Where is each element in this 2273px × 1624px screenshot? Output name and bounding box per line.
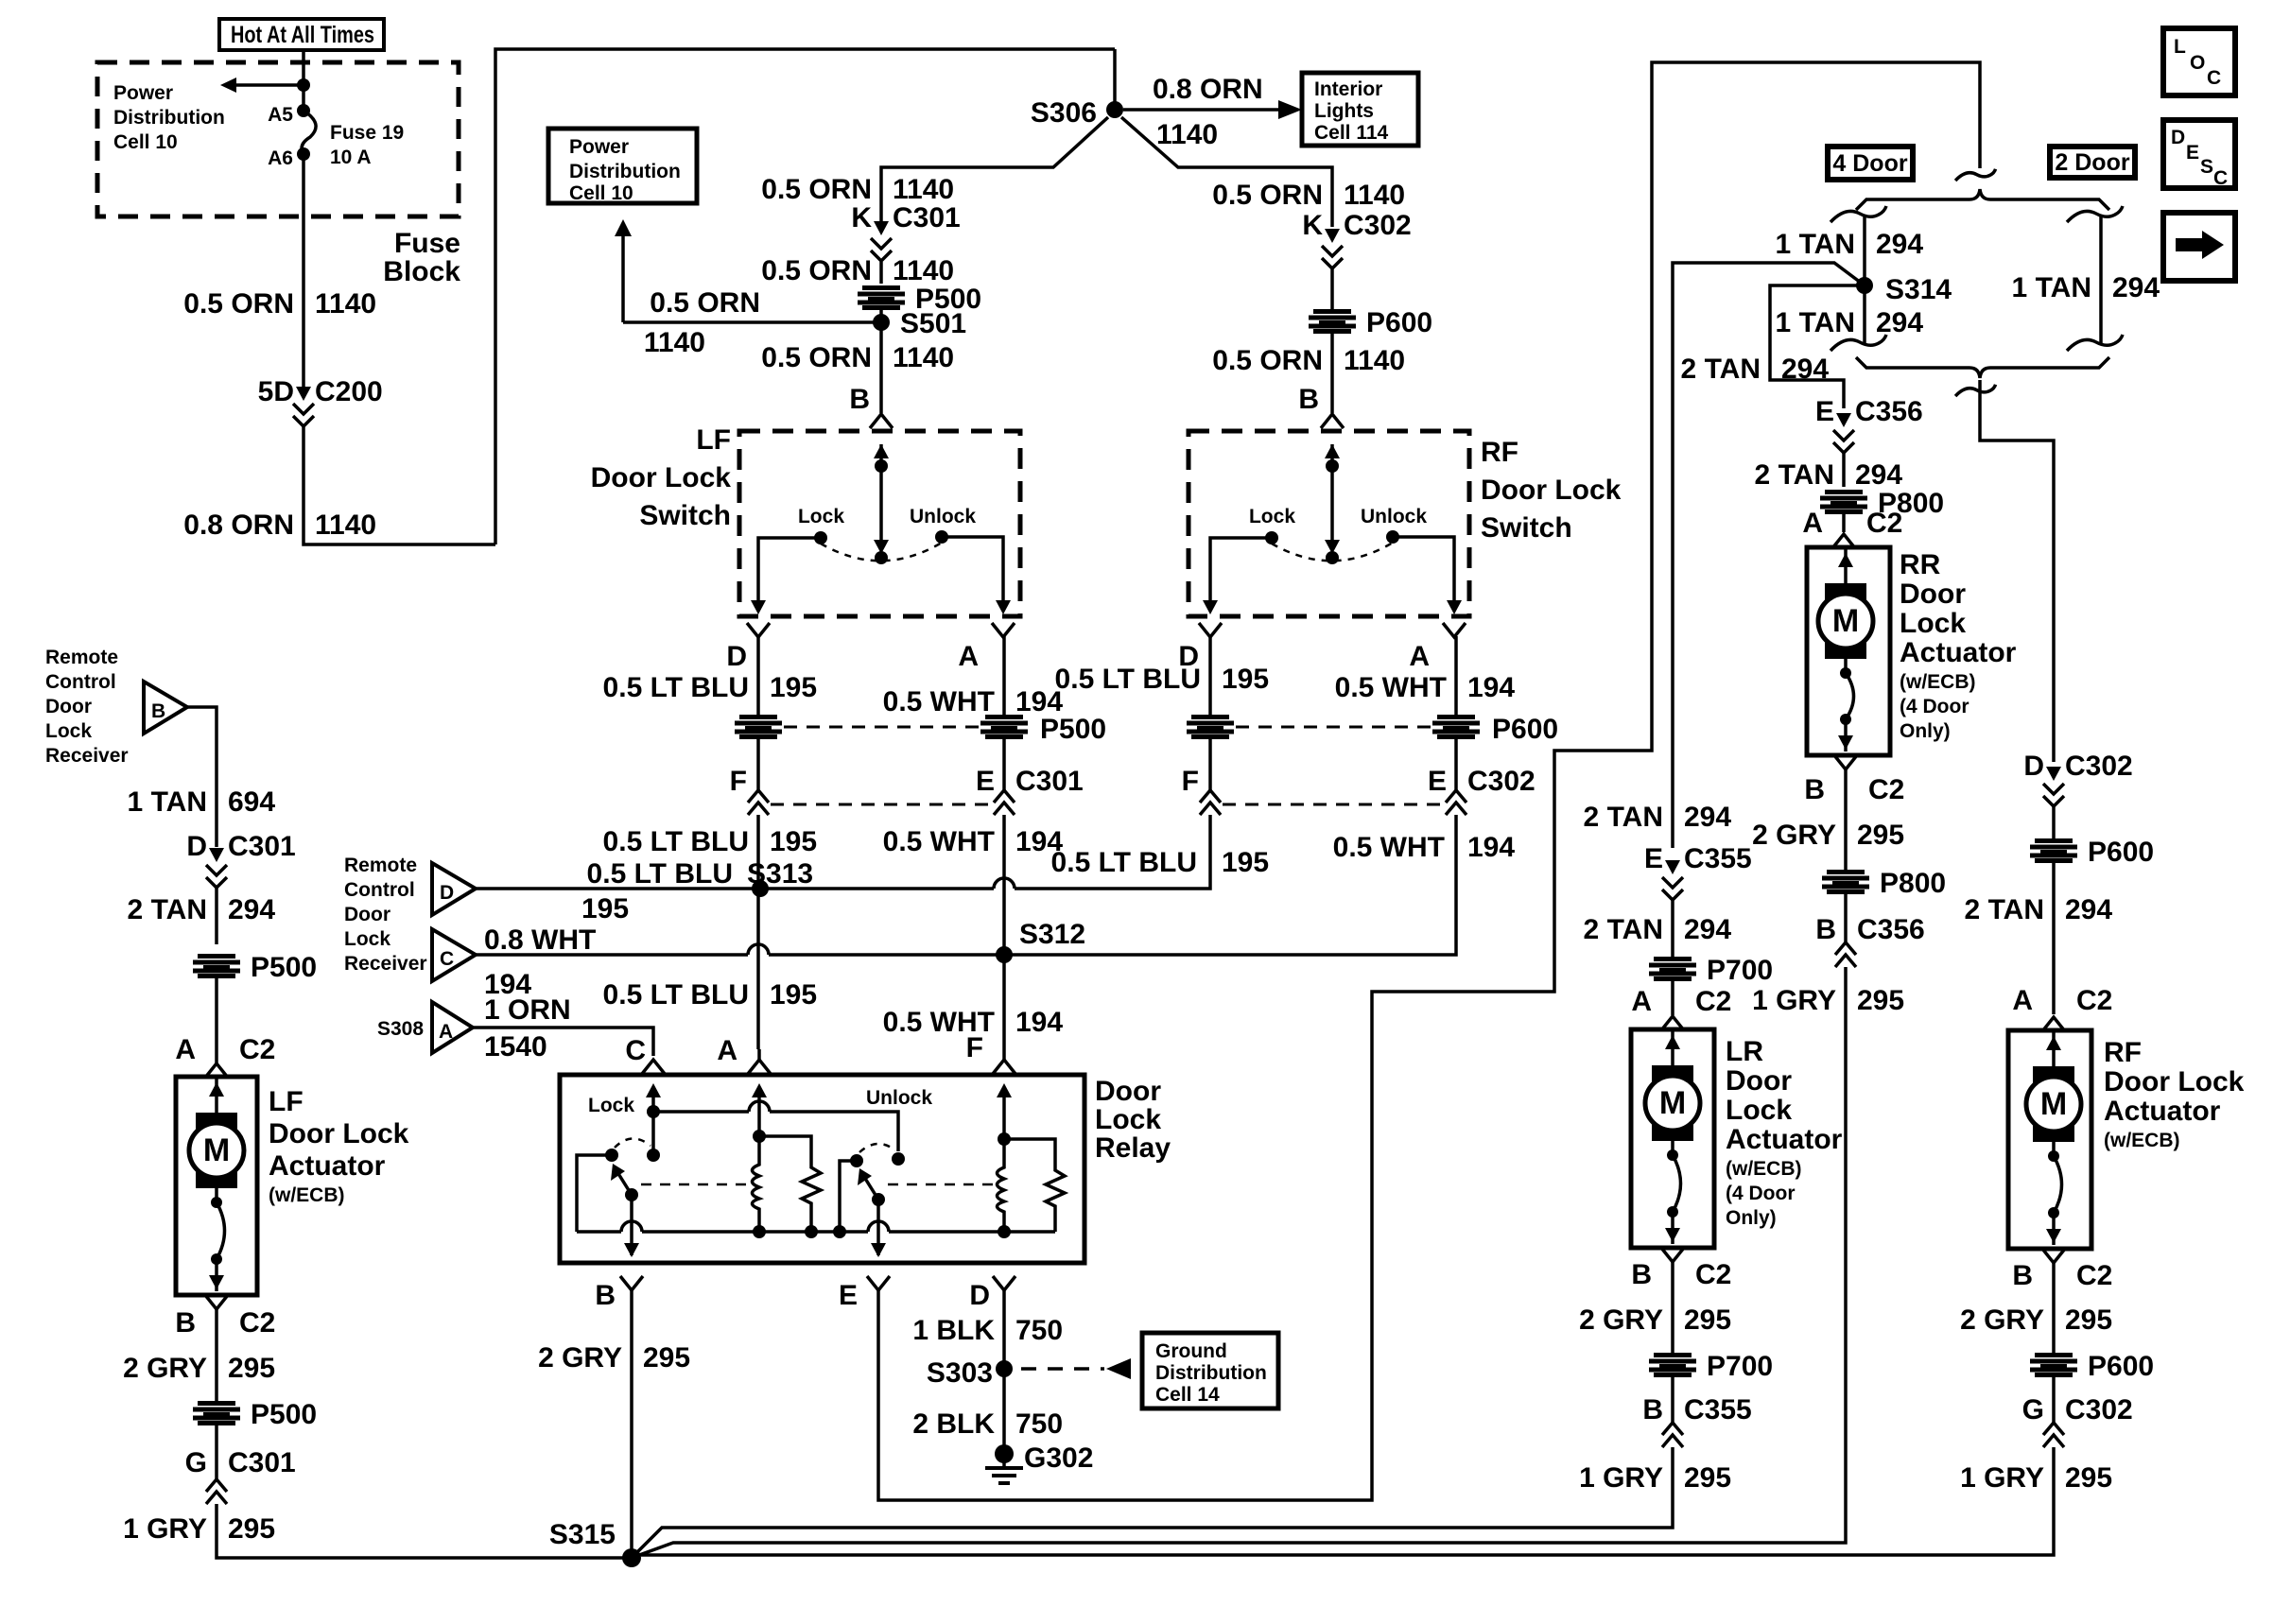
svg-text:Interior: Interior — [1314, 78, 1382, 100]
connector P600 (RF A line) — [1432, 715, 1480, 739]
door lock relay box — [560, 1075, 1084, 1263]
splice S313 — [752, 880, 769, 897]
svg-text:F: F — [730, 766, 747, 797]
svg-text:0.5 ORN: 0.5 ORN — [761, 174, 872, 205]
svg-text:B: B — [595, 1280, 616, 1311]
svg-text:2 GRY: 2 GRY — [538, 1342, 622, 1373]
svg-text:Unlock: Unlock — [866, 1087, 932, 1109]
wire S306 to LF door lock switch branch — [881, 117, 1108, 227]
svg-text:S501: S501 — [900, 308, 966, 339]
svg-text:K: K — [851, 202, 872, 233]
relay lock normally-open contact — [647, 1149, 660, 1162]
svg-text:750: 750 — [1015, 1408, 1063, 1440]
svg-text:295: 295 — [1857, 985, 1904, 1016]
svg-text:Control: Control — [344, 879, 415, 901]
svg-text:D: D — [726, 641, 747, 672]
splice S306 — [1113, 49, 1117, 104]
relay mech linkage dashed (lock) — [641, 1183, 752, 1186]
svg-text:1140: 1140 — [893, 255, 954, 286]
svg-text:194: 194 — [1467, 832, 1515, 863]
arrow to Power Distribution — [297, 78, 310, 92]
svg-text:Block: Block — [383, 256, 460, 287]
relay lock arm to pin B — [630, 1195, 633, 1255]
svg-text:E: E — [1428, 766, 1447, 797]
RF actuator motor — [2052, 1030, 2056, 1066]
connector P800 (RR return) — [1822, 870, 1869, 894]
svg-text:C200: C200 — [315, 376, 383, 407]
LF switch lock contact — [814, 531, 827, 544]
svg-text:0.5 LT BLU: 0.5 LT BLU — [603, 672, 749, 703]
svg-text:B: B — [849, 384, 870, 415]
svg-text:1 TAN: 1 TAN — [2012, 272, 2091, 303]
svg-text:Fuse: Fuse — [394, 228, 460, 259]
svg-text:294: 294 — [2112, 272, 2160, 303]
fuse F19 element — [302, 111, 316, 154]
RF door lock switch dashed box — [1189, 431, 1469, 616]
svg-text:RR: RR — [1900, 549, 1941, 580]
2 Door label box — [2050, 147, 2135, 178]
receiver terminal C triangle — [432, 929, 476, 981]
svg-text:Receiver: Receiver — [45, 745, 129, 767]
relay pin A chevron — [757, 1049, 761, 1062]
svg-text:0.5 ORN: 0.5 ORN — [761, 255, 872, 286]
svg-text:294: 294 — [1876, 307, 1923, 338]
svg-text:0.5 ORN: 0.5 ORN — [650, 287, 760, 319]
svg-text:(w/ECB): (w/ECB) — [2104, 1130, 2180, 1151]
svg-text:294: 294 — [228, 894, 275, 925]
svg-text:2 Door: 2 Door — [2055, 149, 2129, 176]
wire RF switch D down — [1208, 636, 1212, 715]
svg-text:195: 195 — [770, 826, 817, 857]
svg-text:4 Door: 4 Door — [1832, 150, 1907, 177]
svg-text:C2: C2 — [2076, 985, 2112, 1016]
svg-text:C2: C2 — [1695, 986, 1731, 1017]
relay unlock arm to pin E — [876, 1200, 880, 1255]
connector P600 (RF feed) — [2030, 838, 2077, 863]
svg-text:B: B — [1631, 1259, 1652, 1290]
LF door lock actuator box — [176, 1077, 257, 1295]
LF door lock switch dashed box — [739, 431, 1020, 616]
wire 1 BLK 750 — [1002, 1290, 1006, 1369]
wire S313 down to relay pin A — [756, 889, 760, 1049]
svg-text:1 ORN: 1 ORN — [484, 994, 571, 1026]
LR actuator pin B — [1661, 1248, 1684, 1262]
svg-text:Relay: Relay — [1095, 1132, 1171, 1164]
LR door lock actuator box — [1631, 1029, 1714, 1248]
connector P600 (RF D line) — [1187, 715, 1234, 739]
svg-text:D: D — [2023, 751, 2044, 782]
wire 1 GRY 295 to S315 — [632, 967, 1846, 1558]
svg-text:Only): Only) — [1900, 720, 1951, 742]
wire to S501 — [623, 320, 881, 324]
svg-text:Unlock: Unlock — [1361, 506, 1427, 527]
svg-text:Lights: Lights — [1314, 100, 1374, 122]
splice S501 — [879, 307, 883, 413]
fuse F19 terminal A5 — [297, 104, 310, 117]
svg-text:Lock: Lock — [1726, 1095, 1792, 1126]
connector P700 (LR return) — [1649, 1353, 1696, 1377]
svg-text:C355: C355 — [1684, 843, 1752, 874]
connector P500 (D line) — [735, 715, 782, 739]
dashed pair line C302 — [1223, 803, 1445, 806]
svg-text:294: 294 — [2065, 894, 2112, 925]
svg-text:A: A — [1409, 641, 1430, 672]
svg-text:M: M — [2040, 1086, 2067, 1122]
svg-text:1140: 1140 — [644, 327, 705, 358]
svg-text:Lock: Lock — [588, 1095, 634, 1116]
RF switch lock leg to pin D — [1210, 538, 1272, 601]
svg-text:295: 295 — [643, 1342, 690, 1373]
wire 1 GRY 295 to S315 — [632, 1447, 1673, 1558]
relay mech linkage dashed (unlock) — [888, 1183, 993, 1186]
svg-text:295: 295 — [228, 1353, 275, 1384]
svg-text:1 GRY: 1 GRY — [1960, 1462, 2044, 1494]
svg-text:1140: 1140 — [893, 174, 954, 205]
wire 2 TAN 294 S314 to LR door — [1673, 263, 1865, 848]
LF actuator pin B chevron — [205, 1295, 228, 1309]
svg-text:C301: C301 — [228, 1447, 296, 1478]
svg-text:294: 294 — [1855, 459, 1902, 491]
svg-text:C: C — [2213, 167, 2228, 189]
svg-text:Remote: Remote — [45, 647, 118, 668]
LF switch pin D chevron — [747, 623, 770, 637]
svg-text:Lock: Lock — [1249, 506, 1295, 527]
svg-text:Cell 14: Cell 14 — [1155, 1384, 1220, 1406]
RF switch unlock contact — [1386, 530, 1399, 544]
svg-text:D: D — [440, 882, 454, 904]
wire from Hot At All Times into fuse block — [302, 50, 305, 111]
svg-text:A5: A5 — [268, 104, 293, 126]
relay lock switch travel arc — [615, 1138, 651, 1148]
wire 0.5 WHT 194 to S312 — [1002, 815, 1006, 955]
svg-text:195: 195 — [1222, 847, 1269, 878]
svg-text:1 GRY: 1 GRY — [1752, 985, 1836, 1016]
svg-text:2 TAN: 2 TAN — [1965, 894, 2044, 925]
svg-text:Distribution: Distribution — [113, 107, 225, 129]
svg-text:Door: Door — [344, 904, 390, 925]
RF door lock actuator box — [2008, 1030, 2091, 1249]
relay pin D chevron — [993, 1276, 1015, 1290]
svg-text:Lock: Lock — [1095, 1104, 1161, 1135]
svg-text:Ground: Ground — [1155, 1340, 1227, 1362]
wire from lower brace to RF actuator column — [1955, 385, 1995, 396]
svg-text:Hot At All Times: Hot At All Times — [231, 22, 374, 48]
svg-text:C302: C302 — [1467, 766, 1536, 797]
RR door lock actuator box — [1807, 547, 1890, 755]
svg-text:2 GRY: 2 GRY — [1579, 1304, 1663, 1336]
wire 1 TAN 294 (4 door lower) — [1863, 285, 1866, 344]
svg-text:294: 294 — [1684, 802, 1731, 833]
svg-text:Cell 10: Cell 10 — [113, 131, 178, 153]
svg-text:Actuator: Actuator — [269, 1150, 386, 1182]
svg-text:S314: S314 — [1885, 274, 1952, 305]
splice S303 — [996, 1360, 1013, 1377]
relay unlock contact dots — [892, 1152, 905, 1166]
svg-text:Unlock: Unlock — [910, 506, 976, 527]
splice S312 — [996, 946, 1013, 963]
DESC legend box — [2163, 120, 2235, 188]
svg-text:295: 295 — [1857, 820, 1904, 851]
splice S315 — [622, 1548, 641, 1567]
svg-text:1 GRY: 1 GRY — [123, 1513, 207, 1545]
wire to P600 — [2052, 806, 2056, 838]
svg-text:A: A — [2012, 985, 2033, 1016]
svg-text:P500: P500 — [1040, 714, 1106, 745]
arrow up to power distribution — [615, 219, 632, 236]
RF actuator pin B — [2042, 1249, 2065, 1263]
svg-text:0.8 ORN: 0.8 ORN — [183, 510, 294, 541]
svg-text:Door: Door — [1900, 579, 1966, 610]
svg-text:Actuator: Actuator — [1726, 1124, 1843, 1155]
svg-text:D: D — [969, 1280, 990, 1311]
svg-text:1 TAN: 1 TAN — [1776, 307, 1855, 338]
arrow to interior lights — [1123, 108, 1280, 112]
svg-text:O: O — [2190, 52, 2205, 74]
svg-text:Door: Door — [45, 696, 92, 717]
wire 1 TAN 694 from receiver B — [187, 707, 217, 847]
wire S306 to RF door lock switch branch — [1121, 117, 1332, 227]
svg-text:0.5 ORN: 0.5 ORN — [183, 288, 294, 320]
wire C200 down and over to riser — [304, 426, 495, 544]
svg-text:P700: P700 — [1707, 955, 1773, 986]
svg-text:Lock: Lock — [1900, 608, 1966, 639]
svg-text:E: E — [839, 1280, 858, 1311]
RF switch lock contact — [1265, 531, 1278, 544]
svg-text:A: A — [175, 1034, 196, 1065]
power distribution cell 10 box — [548, 129, 697, 203]
svg-text:S306: S306 — [1031, 97, 1097, 129]
svg-text:2 TAN: 2 TAN — [1584, 914, 1663, 945]
svg-text:E: E — [976, 766, 995, 797]
svg-text:0.5 WHT: 0.5 WHT — [1333, 832, 1445, 863]
ground distribution cell 14 box — [1142, 1333, 1278, 1408]
connector P700 — [1649, 957, 1696, 981]
connector P800 — [1820, 490, 1867, 514]
svg-text:Door Lock: Door Lock — [2104, 1066, 2245, 1097]
svg-text:750: 750 — [1015, 1315, 1063, 1346]
LF switch lock leg to pin D — [758, 538, 821, 601]
LF switch unlock contact — [935, 530, 948, 544]
wire 2 GRY 295 relay B to S315 — [630, 1290, 633, 1558]
svg-text:0.5 LT BLU: 0.5 LT BLU — [1051, 847, 1197, 878]
wire A6 down to C200 — [302, 154, 305, 389]
wire 2 TAN 294 — [1671, 900, 1674, 957]
svg-text:(4 Door: (4 Door — [1900, 696, 1969, 717]
ground G302 — [995, 1444, 1014, 1463]
svg-text:P600: P600 — [2088, 1351, 2154, 1382]
brace upper (alternatives split) — [1856, 189, 2109, 210]
svg-text:1140: 1140 — [1344, 345, 1405, 376]
svg-text:Actuator: Actuator — [1900, 637, 2017, 668]
svg-text:M: M — [1832, 603, 1859, 639]
svg-text:LF: LF — [696, 424, 731, 456]
fuse block dashed outline (Power Distribution Cell 10) — [97, 62, 459, 216]
relay resistor (unlock) — [759, 1136, 821, 1232]
svg-text:A6: A6 — [268, 147, 293, 169]
receiver terminal B triangle — [144, 682, 187, 734]
svg-text:E: E — [2186, 142, 2199, 164]
svg-text:294: 294 — [1781, 354, 1829, 385]
svg-text:B: B — [151, 700, 165, 722]
wire 2 TAN 294 S314 to RR door — [1770, 285, 1865, 408]
svg-text:F: F — [966, 1032, 983, 1063]
svg-text:C301: C301 — [893, 202, 961, 233]
relay pin B chevron — [620, 1276, 643, 1290]
RR actuator pin B — [1834, 755, 1857, 769]
svg-text:Power: Power — [569, 136, 629, 158]
RF switch pole (dashed travel arc) — [1272, 543, 1393, 561]
svg-text:295: 295 — [1684, 1462, 1731, 1494]
wire LF switch A down — [1002, 636, 1006, 715]
svg-text:1140: 1140 — [1156, 119, 1218, 150]
svg-text:1 TAN: 1 TAN — [128, 786, 207, 818]
LF switch pole (dashed travel arc) — [821, 543, 942, 561]
svg-text:C302: C302 — [1344, 210, 1412, 241]
svg-text:A: A — [958, 641, 979, 672]
dashed pair line P600 — [1236, 726, 1431, 729]
svg-text:195: 195 — [770, 979, 817, 1011]
svg-text:RF: RF — [2104, 1037, 2142, 1068]
svg-text:294: 294 — [1876, 229, 1923, 260]
svg-text:1540: 1540 — [484, 1031, 547, 1063]
svg-text:1 GRY: 1 GRY — [1579, 1462, 1663, 1494]
svg-text:M: M — [1659, 1085, 1686, 1121]
svg-text:C2: C2 — [1695, 1259, 1731, 1290]
svg-text:(w/ECB): (w/ECB) — [1900, 671, 1976, 693]
svg-text:C2: C2 — [1866, 508, 1902, 539]
svg-text:Lock: Lock — [45, 720, 92, 742]
relay unlock coil feed from pin A — [752, 1083, 767, 1097]
svg-text:2 GRY: 2 GRY — [1752, 820, 1836, 851]
wire 2 TAN 294 — [1842, 453, 1846, 487]
relay lock coil feed from pin C — [646, 1083, 661, 1097]
svg-text:C: C — [440, 948, 454, 970]
svg-text:295: 295 — [2065, 1304, 2112, 1336]
svg-text:Actuator: Actuator — [2104, 1096, 2221, 1127]
relay lock coil (from pin F) — [997, 1083, 1012, 1097]
svg-text:2 TAN: 2 TAN — [1681, 354, 1761, 385]
svg-text:Lock: Lock — [798, 506, 844, 527]
4 Door label box — [1828, 147, 1913, 180]
svg-text:694: 694 — [228, 786, 275, 818]
connector P600 (RF supply) — [1330, 268, 1334, 309]
wire LF switch D down — [756, 636, 760, 715]
svg-text:C302: C302 — [2065, 751, 2133, 782]
svg-text:B: B — [2012, 1260, 2033, 1291]
interior lights cell 114 box — [1302, 73, 1418, 146]
svg-text:S312: S312 — [1019, 919, 1085, 950]
svg-text:G: G — [185, 1447, 207, 1478]
svg-text:Door Lock: Door Lock — [591, 462, 732, 493]
svg-text:0.8 WHT: 0.8 WHT — [484, 924, 596, 956]
svg-text:C2: C2 — [239, 1307, 275, 1339]
svg-text:Switch: Switch — [639, 500, 731, 531]
relay unlock coil — [753, 1136, 760, 1232]
svg-text:195: 195 — [1222, 664, 1269, 695]
svg-text:194: 194 — [1467, 672, 1515, 703]
svg-text:A: A — [1631, 986, 1652, 1017]
dashed pair line P500 — [784, 726, 980, 729]
svg-text:RF: RF — [1481, 437, 1518, 468]
svg-text:S313: S313 — [747, 858, 813, 890]
svg-text:P500: P500 — [251, 952, 317, 983]
wire 2 GRY 295 — [215, 1309, 218, 1401]
splice S314 — [1856, 277, 1873, 294]
relay bottom bus — [577, 1230, 621, 1234]
svg-text:1140: 1140 — [315, 288, 376, 320]
wire 1 TAN 294 (4 door upper) — [1831, 206, 1886, 222]
svg-text:1140: 1140 — [1344, 180, 1405, 211]
svg-text:P600: P600 — [1492, 714, 1558, 745]
relay unlock switch arm — [872, 1193, 885, 1206]
relay pin C chevron — [642, 1060, 665, 1074]
riser wire up to top bus — [495, 49, 1115, 544]
svg-text:Power: Power — [113, 82, 173, 104]
fuse F19 terminal A6 — [297, 147, 310, 161]
svg-text:Control: Control — [45, 671, 116, 693]
forward arrow legend box — [2163, 213, 2235, 281]
svg-text:295: 295 — [228, 1513, 275, 1545]
svg-text:1140: 1140 — [893, 342, 954, 373]
brace lower (alternatives merge) — [1856, 357, 2109, 378]
wire 2 TAN 294 — [215, 888, 218, 944]
svg-text:(w/ECB): (w/ECB) — [1726, 1158, 1802, 1180]
svg-text:C2: C2 — [1868, 774, 1904, 805]
svg-text:B: B — [1815, 914, 1836, 945]
relay resistor (lock) — [1004, 1139, 1065, 1232]
svg-text:0.5 LT BLU: 0.5 LT BLU — [603, 979, 749, 1011]
svg-text:0.5 WHT: 0.5 WHT — [883, 686, 995, 717]
svg-text:194: 194 — [1015, 1007, 1063, 1038]
relay lock common contact — [605, 1149, 618, 1162]
svg-text:P700: P700 — [1707, 1351, 1773, 1382]
relay lock switch arm — [625, 1188, 638, 1201]
svg-text:P800: P800 — [1880, 868, 1946, 899]
svg-text:C301: C301 — [228, 831, 296, 862]
svg-text:0.5 LT BLU: 0.5 LT BLU — [1055, 664, 1201, 695]
wire 2 GRY 295 — [1671, 1262, 1674, 1353]
svg-text:D: D — [2171, 127, 2185, 148]
RR actuator motor — [1844, 547, 1848, 583]
svg-text:0.5 ORN: 0.5 ORN — [1212, 345, 1323, 376]
svg-text:195: 195 — [770, 672, 817, 703]
svg-text:K: K — [1302, 210, 1323, 241]
svg-text:10 A: 10 A — [330, 147, 372, 168]
svg-text:2 GRY: 2 GRY — [1960, 1304, 2044, 1336]
svg-text:195: 195 — [581, 893, 629, 924]
svg-text:S308: S308 — [377, 1018, 424, 1040]
connector P600 (RF return) — [2030, 1353, 2077, 1377]
wire 2 BLK 750 — [1002, 1369, 1006, 1454]
svg-text:C2: C2 — [239, 1034, 275, 1065]
connector P500 (LF return) — [193, 1401, 240, 1425]
connector P500 (LF actuator line) — [193, 954, 240, 978]
svg-text:1140: 1140 — [315, 510, 376, 541]
svg-text:295: 295 — [2065, 1462, 2112, 1494]
svg-text:Cell 114: Cell 114 — [1314, 122, 1389, 144]
svg-text:E: E — [1644, 843, 1663, 874]
RF switch pin D chevron — [1199, 623, 1222, 637]
wire relay E to S314 riser — [878, 62, 1980, 1500]
svg-text:C301: C301 — [1015, 766, 1084, 797]
svg-text:2 TAN: 2 TAN — [1755, 459, 1834, 491]
svg-text:S303: S303 — [927, 1357, 993, 1389]
svg-text:B: B — [1804, 774, 1825, 805]
svg-text:Cell 10: Cell 10 — [569, 182, 633, 204]
LF switch unlock leg to pin A — [942, 537, 1003, 601]
svg-text:Only): Only) — [1726, 1207, 1777, 1229]
svg-text:Remote: Remote — [344, 855, 417, 876]
